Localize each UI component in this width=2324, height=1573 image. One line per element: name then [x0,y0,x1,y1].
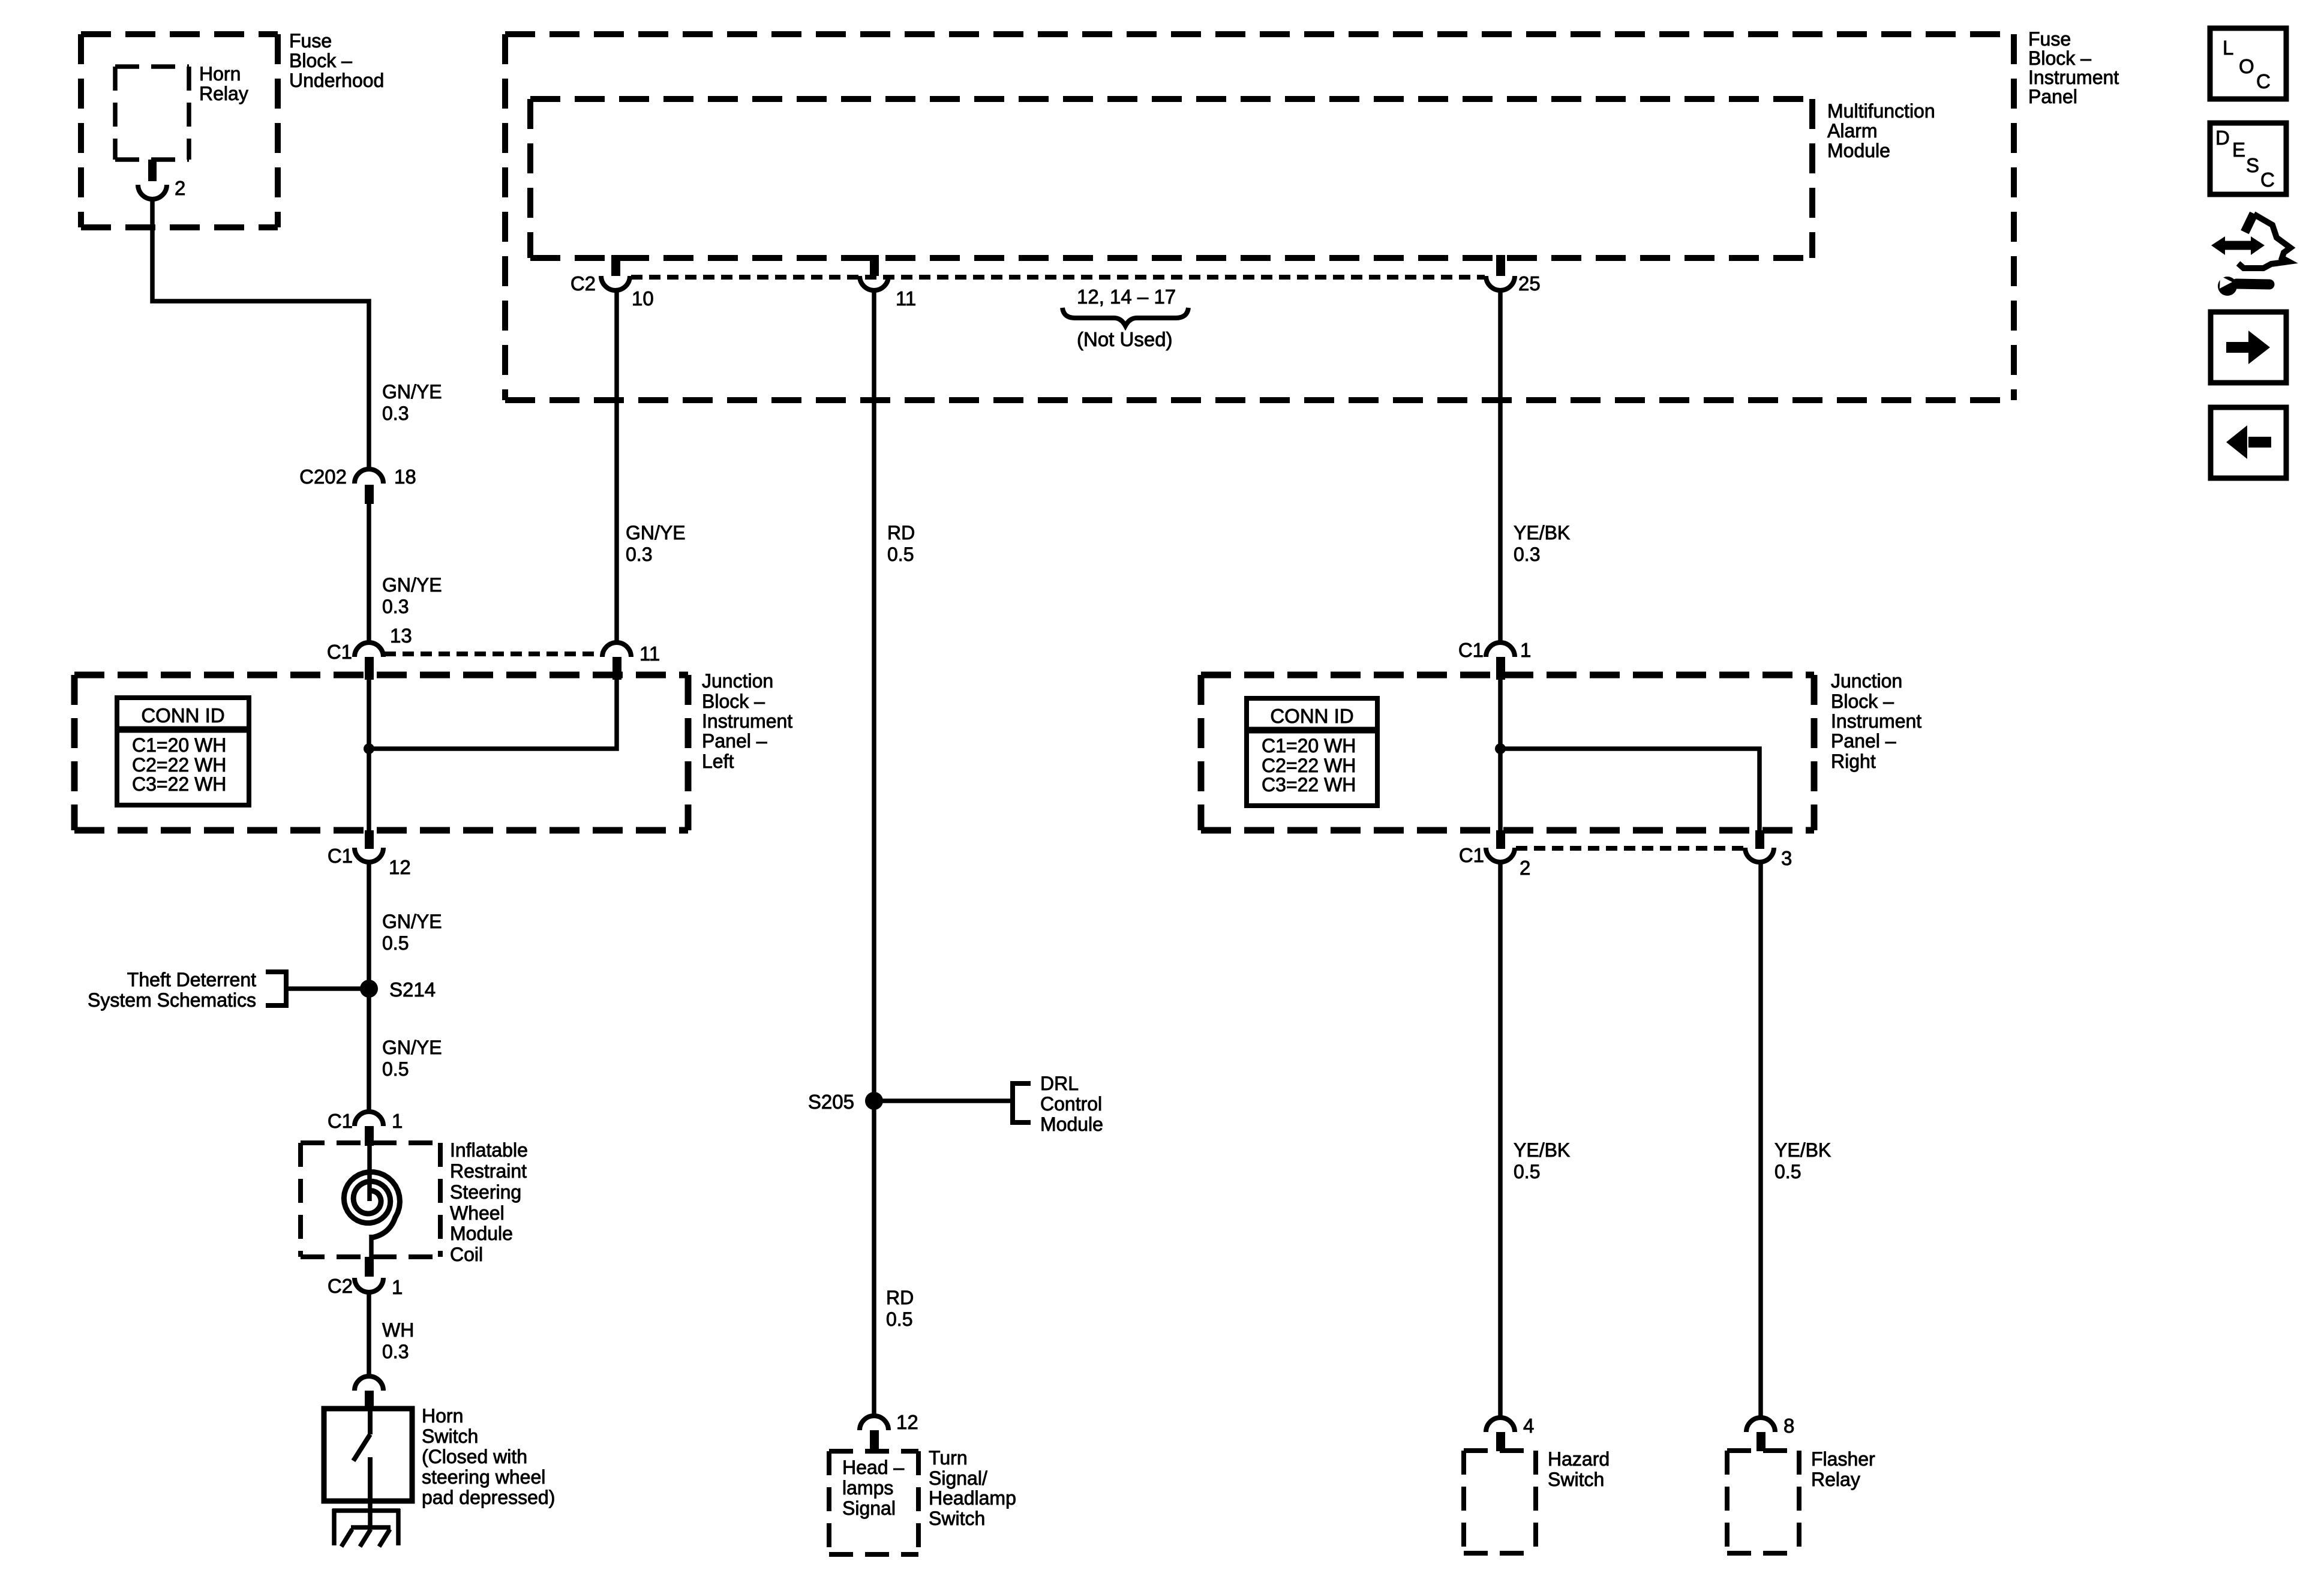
horn switch box [324,1409,412,1501]
svg-text:Steering: Steering [450,1181,521,1203]
svg-text:Relay: Relay [1811,1469,1860,1490]
label Fuse Block Instrument Panel [2028,28,2119,107]
svg-text:Signal: Signal [842,1497,896,1519]
svg-text:WH: WH [382,1319,414,1341]
svg-text:lamps: lamps [842,1477,893,1499]
svg-text:GN/YE: GN/YE [382,574,442,596]
DESC icon box [2210,123,2286,194]
svg-text:Panel –: Panel – [1831,730,1896,752]
connector pin 3 (right block bottom) [1745,830,1774,862]
label Fuse Block Underhood [289,30,384,91]
wire label RD 0.5 (lower) [886,1287,914,1330]
svg-text:L: L [2223,37,2233,59]
connector pin 12 (turn signal switch) [860,1416,888,1451]
svg-text:D: D [2215,127,2230,149]
svg-text:C3=22 WH: C3=22 WH [1262,774,1356,795]
dotted mating line pin2 to pin3 [1516,846,1744,851]
svg-text:YE/BK: YE/BK [1514,1139,1570,1161]
svg-text:Fuse: Fuse [289,30,332,52]
svg-text:C1: C1 [328,1110,353,1132]
connector C202 pin 18 [355,469,383,504]
pin 11 connector (alarm module) [860,255,888,290]
svg-text:C1: C1 [328,845,353,867]
label Inflatable Restraint Steering Wheel Module Coil [450,1139,528,1265]
svg-text:11: 11 [896,287,916,310]
svg-text:Module: Module [450,1223,513,1244]
wire junction branch to pin 11 [369,679,617,749]
svg-text:Switch: Switch [422,1425,478,1447]
wire junction branch to pin 3 [1500,749,1759,830]
svg-text:C3=22 WH: C3=22 WH [132,773,226,795]
pin 2 connector of horn relay [138,160,167,199]
wire bracket to S214 [286,986,369,991]
svg-text:Restraint: Restraint [450,1160,527,1182]
connector C1 pin 13 [355,643,383,680]
svg-text:8: 8 [1783,1415,1794,1437]
svg-text:12: 12 [389,856,411,878]
pin 10 connector (C2 alarm module) [601,255,630,290]
svg-text:0.3: 0.3 [626,544,652,565]
svg-text:0.3: 0.3 [1514,544,1540,565]
svg-text:0.3: 0.3 [382,596,409,617]
svg-text:C2: C2 [571,272,596,295]
junction node in left block [364,743,374,754]
label Multifunction Alarm Module [1827,100,1935,161]
head-lamps signal box [829,1451,918,1554]
splice S205 [865,1092,883,1110]
svg-text:Relay: Relay [199,83,248,104]
svg-text:GN/YE: GN/YE [382,381,442,403]
label Turn Signal/Headlamp Switch [929,1447,1016,1529]
wire out of coil [369,1235,374,1257]
connector C1 pin 2 (right block bottom) [1486,830,1515,862]
wire label GN/YE 0.3 (second) [382,574,442,617]
svg-text:GN/YE: GN/YE [626,522,686,544]
connector C1 pin 1 (right junction block) [1486,643,1515,680]
pin 25 connector (alarm module) [1486,255,1515,290]
svg-text:DRL: DRL [1040,1073,1079,1094]
svg-text:GN/YE: GN/YE [382,911,442,932]
wire pin10 down to junction pin 11 [614,289,619,643]
svg-text:(Not Used): (Not Used) [1077,328,1173,350]
svg-text:C2=22 WH: C2=22 WH [132,754,226,776]
junction block instrument panel left box [74,675,688,830]
svg-text:0.5: 0.5 [382,932,409,954]
CONN ID table (right) [1247,698,1377,806]
svg-text:1: 1 [392,1110,403,1132]
dotted connector face line pins 10-25 [631,275,1485,280]
wire label YE/BK 0.5 (left) [1514,1139,1570,1182]
svg-text:Coil: Coil [450,1244,483,1265]
svg-text:Block –: Block – [702,691,765,712]
wire label GN/YE 0.5 (below S214) [382,1037,442,1080]
svg-text:0.5: 0.5 [382,1058,409,1080]
wire C1-2 down to hazard switch [1498,862,1503,1418]
svg-text:0.5: 0.5 [1514,1161,1540,1182]
svg-text:YE/BK: YE/BK [1774,1139,1831,1161]
svg-text:3: 3 [1781,847,1792,869]
theft deterrent bracket [266,972,286,1005]
svg-text:C1=20 WH: C1=20 WH [1262,735,1356,757]
svg-text:4: 4 [1523,1415,1534,1437]
svg-text:RD: RD [887,522,915,544]
wire C1-12 down to S214 and C1-1 [367,862,371,1111]
fuse block underhood box [81,34,278,227]
svg-text:Alarm: Alarm [1827,120,1878,142]
label Horn Switch [422,1405,555,1508]
svg-text:steering wheel: steering wheel [422,1466,545,1488]
svg-text:System Schematics: System Schematics [88,989,256,1011]
svg-text:Horn: Horn [199,63,241,85]
svg-text:S: S [2246,154,2259,176]
svg-text:Panel –: Panel – [702,730,767,752]
previous page arrow icon box [2211,407,2286,478]
svg-text:0.5: 0.5 [886,1308,912,1330]
svg-text:12, 14 – 17: 12, 14 – 17 [1077,286,1176,308]
svg-text:C1: C1 [327,641,352,663]
svg-text:E: E [2232,139,2245,161]
svg-text:O: O [2239,55,2254,77]
connector pin 8 (flasher relay) [1746,1418,1775,1451]
label Flasher Relay [1811,1448,1875,1490]
wire label YE/BK 0.5 (right) [1774,1139,1831,1182]
wire pin 25 down to C1-1 right [1498,289,1503,643]
theft deterrent reference label [88,969,256,1011]
CONN ID table (left) [117,698,249,805]
wire label GN/YE 0.5 [382,911,442,954]
multifunction alarm module box [530,99,1812,258]
svg-text:C1=20 WH: C1=20 WH [132,734,226,756]
svg-text:Right: Right [1831,751,1876,772]
svg-text:0.5: 0.5 [1774,1161,1801,1182]
wire label YE/BK 0.3 [1514,522,1570,565]
svg-text:C2: C2 [328,1275,353,1297]
svg-text:Theft Deterrent: Theft Deterrent [127,969,256,990]
label Junction Block Instrument Panel Right [1831,670,1921,772]
svg-text:Flasher: Flasher [1811,1448,1875,1470]
svg-text:2: 2 [1520,857,1530,879]
label Horn Relay [199,63,248,104]
svg-text:0.3: 0.3 [382,1341,409,1362]
junction node in right block [1495,743,1506,754]
horn switch inline connector [355,1376,383,1411]
svg-text:C: C [2256,70,2271,92]
svg-text:18: 18 [394,466,416,488]
svg-text:(Closed with: (Closed with [422,1446,527,1467]
label Head-lamps Signal [842,1457,904,1519]
wire into coil [367,1146,372,1201]
svg-text:CONN ID: CONN ID [141,704,224,727]
svg-text:Junction: Junction [702,670,773,692]
svg-text:RD: RD [886,1287,914,1308]
svg-text:Left: Left [702,751,734,772]
svg-text:Switch: Switch [1548,1469,1604,1490]
wire label GN/YE 0.3 (horn feed) [382,381,442,424]
wire S205 to DRL bracket [874,1098,1013,1103]
svg-text:Module: Module [1827,140,1890,161]
hazard switch box [1464,1451,1536,1553]
svg-text:Turn: Turn [929,1447,968,1469]
svg-text:2: 2 [175,177,185,199]
svg-text:C1: C1 [1459,844,1484,866]
repair info icon (arrow, outline, wrench) [2211,214,2290,296]
wire through junction block (C1-13 down to C1-12) [367,680,371,830]
wire horn switch to ground [368,1501,373,1528]
svg-text:Block –: Block – [1831,691,1894,712]
wire label GN/YE 0.3 (pin10 wire) [626,522,686,565]
ground symbol G401 [332,1509,400,1547]
fuse block instrument panel box [505,34,2014,400]
connector pin 4 (hazard switch) [1486,1418,1515,1451]
svg-text:Instrument: Instrument [2028,67,2119,88]
svg-text:Head –: Head – [842,1457,904,1478]
wire pin11 down to S205 and turn signal switch [872,289,876,1416]
coil spiral symbol [344,1172,400,1238]
label Junction Block Instrument Panel Left [702,670,792,772]
svg-text:Control: Control [1040,1093,1102,1115]
svg-text:1: 1 [1520,639,1531,661]
svg-text:13: 13 [390,625,412,647]
LOC icon box [2210,28,2286,99]
wire horn relay pin2 to C202 [152,199,369,469]
svg-text:Block –: Block – [2028,47,2091,69]
svg-text:YE/BK: YE/BK [1514,522,1570,544]
wire through right junction block [1498,680,1503,830]
horn relay K box [115,67,189,160]
horn switch symbol [353,1411,370,1501]
svg-text:11: 11 [639,643,660,665]
svg-text:S205: S205 [808,1091,854,1113]
svg-text:Module: Module [1040,1113,1103,1135]
junction block instrument panel right box [1201,675,1814,830]
wire C202 to C1 pin13 [367,504,371,643]
connector pin 11 (junction block top) [602,643,631,680]
svg-text:CONN ID: CONN ID [1270,705,1353,727]
next page arrow icon box [2211,312,2286,383]
svg-text:C202: C202 [299,466,347,488]
svg-text:0.5: 0.5 [887,544,914,565]
svg-text:pad depressed): pad depressed) [422,1487,555,1508]
wire label RD 0.5 (upper) [887,522,915,565]
connector C2 pin 1 (coil bottom) [355,1257,383,1292]
wire pin3 down to flasher relay [1758,862,1763,1418]
svg-text:Block –: Block – [289,50,352,71]
svg-text:Horn: Horn [422,1405,463,1427]
svg-text:Hazard: Hazard [1548,1448,1610,1470]
svg-text:Signal/: Signal/ [929,1467,987,1489]
svg-text:C: C [2260,169,2275,191]
connector C1 pin 12 [355,830,383,862]
svg-text:Fuse: Fuse [2028,28,2071,50]
svg-text:25: 25 [1518,272,1541,295]
svg-text:Switch: Switch [929,1508,985,1529]
wire C2-1 down to horn switch connector [367,1292,371,1376]
svg-text:Junction: Junction [1831,670,1902,692]
splice S214 [360,980,378,998]
svg-text:1: 1 [392,1276,403,1298]
svg-text:GN/YE: GN/YE [382,1037,442,1058]
connector C1 pin 1 (coil) [355,1112,383,1146]
svg-text:C2=22 WH: C2=22 WH [1262,755,1356,776]
svg-text:Headlamp: Headlamp [929,1487,1016,1509]
wire label WH 0.3 [382,1319,414,1362]
dotted mating line C1-13 to 11 [385,652,602,656]
svg-text:Multifunction: Multifunction [1827,100,1935,122]
svg-text:Wheel: Wheel [450,1202,505,1224]
svg-text:C1: C1 [1458,639,1484,661]
svg-text:Inflatable: Inflatable [450,1139,528,1161]
svg-text:Instrument: Instrument [702,710,792,732]
label DRL Control Module [1040,1073,1103,1135]
label Hazard Switch [1548,1448,1610,1490]
svg-text:Panel: Panel [2028,86,2077,107]
inflatable restraint coil box [301,1143,440,1257]
svg-text:Underhood: Underhood [289,70,384,91]
svg-text:Instrument: Instrument [1831,710,1921,732]
svg-text:10: 10 [632,287,654,310]
brace for not used pins [1062,308,1188,326]
svg-text:12: 12 [896,1411,918,1433]
svg-text:S214: S214 [389,978,436,1001]
svg-text:0.3: 0.3 [382,403,409,424]
DRL control module bracket [1013,1083,1031,1122]
flasher relay box [1727,1451,1799,1553]
